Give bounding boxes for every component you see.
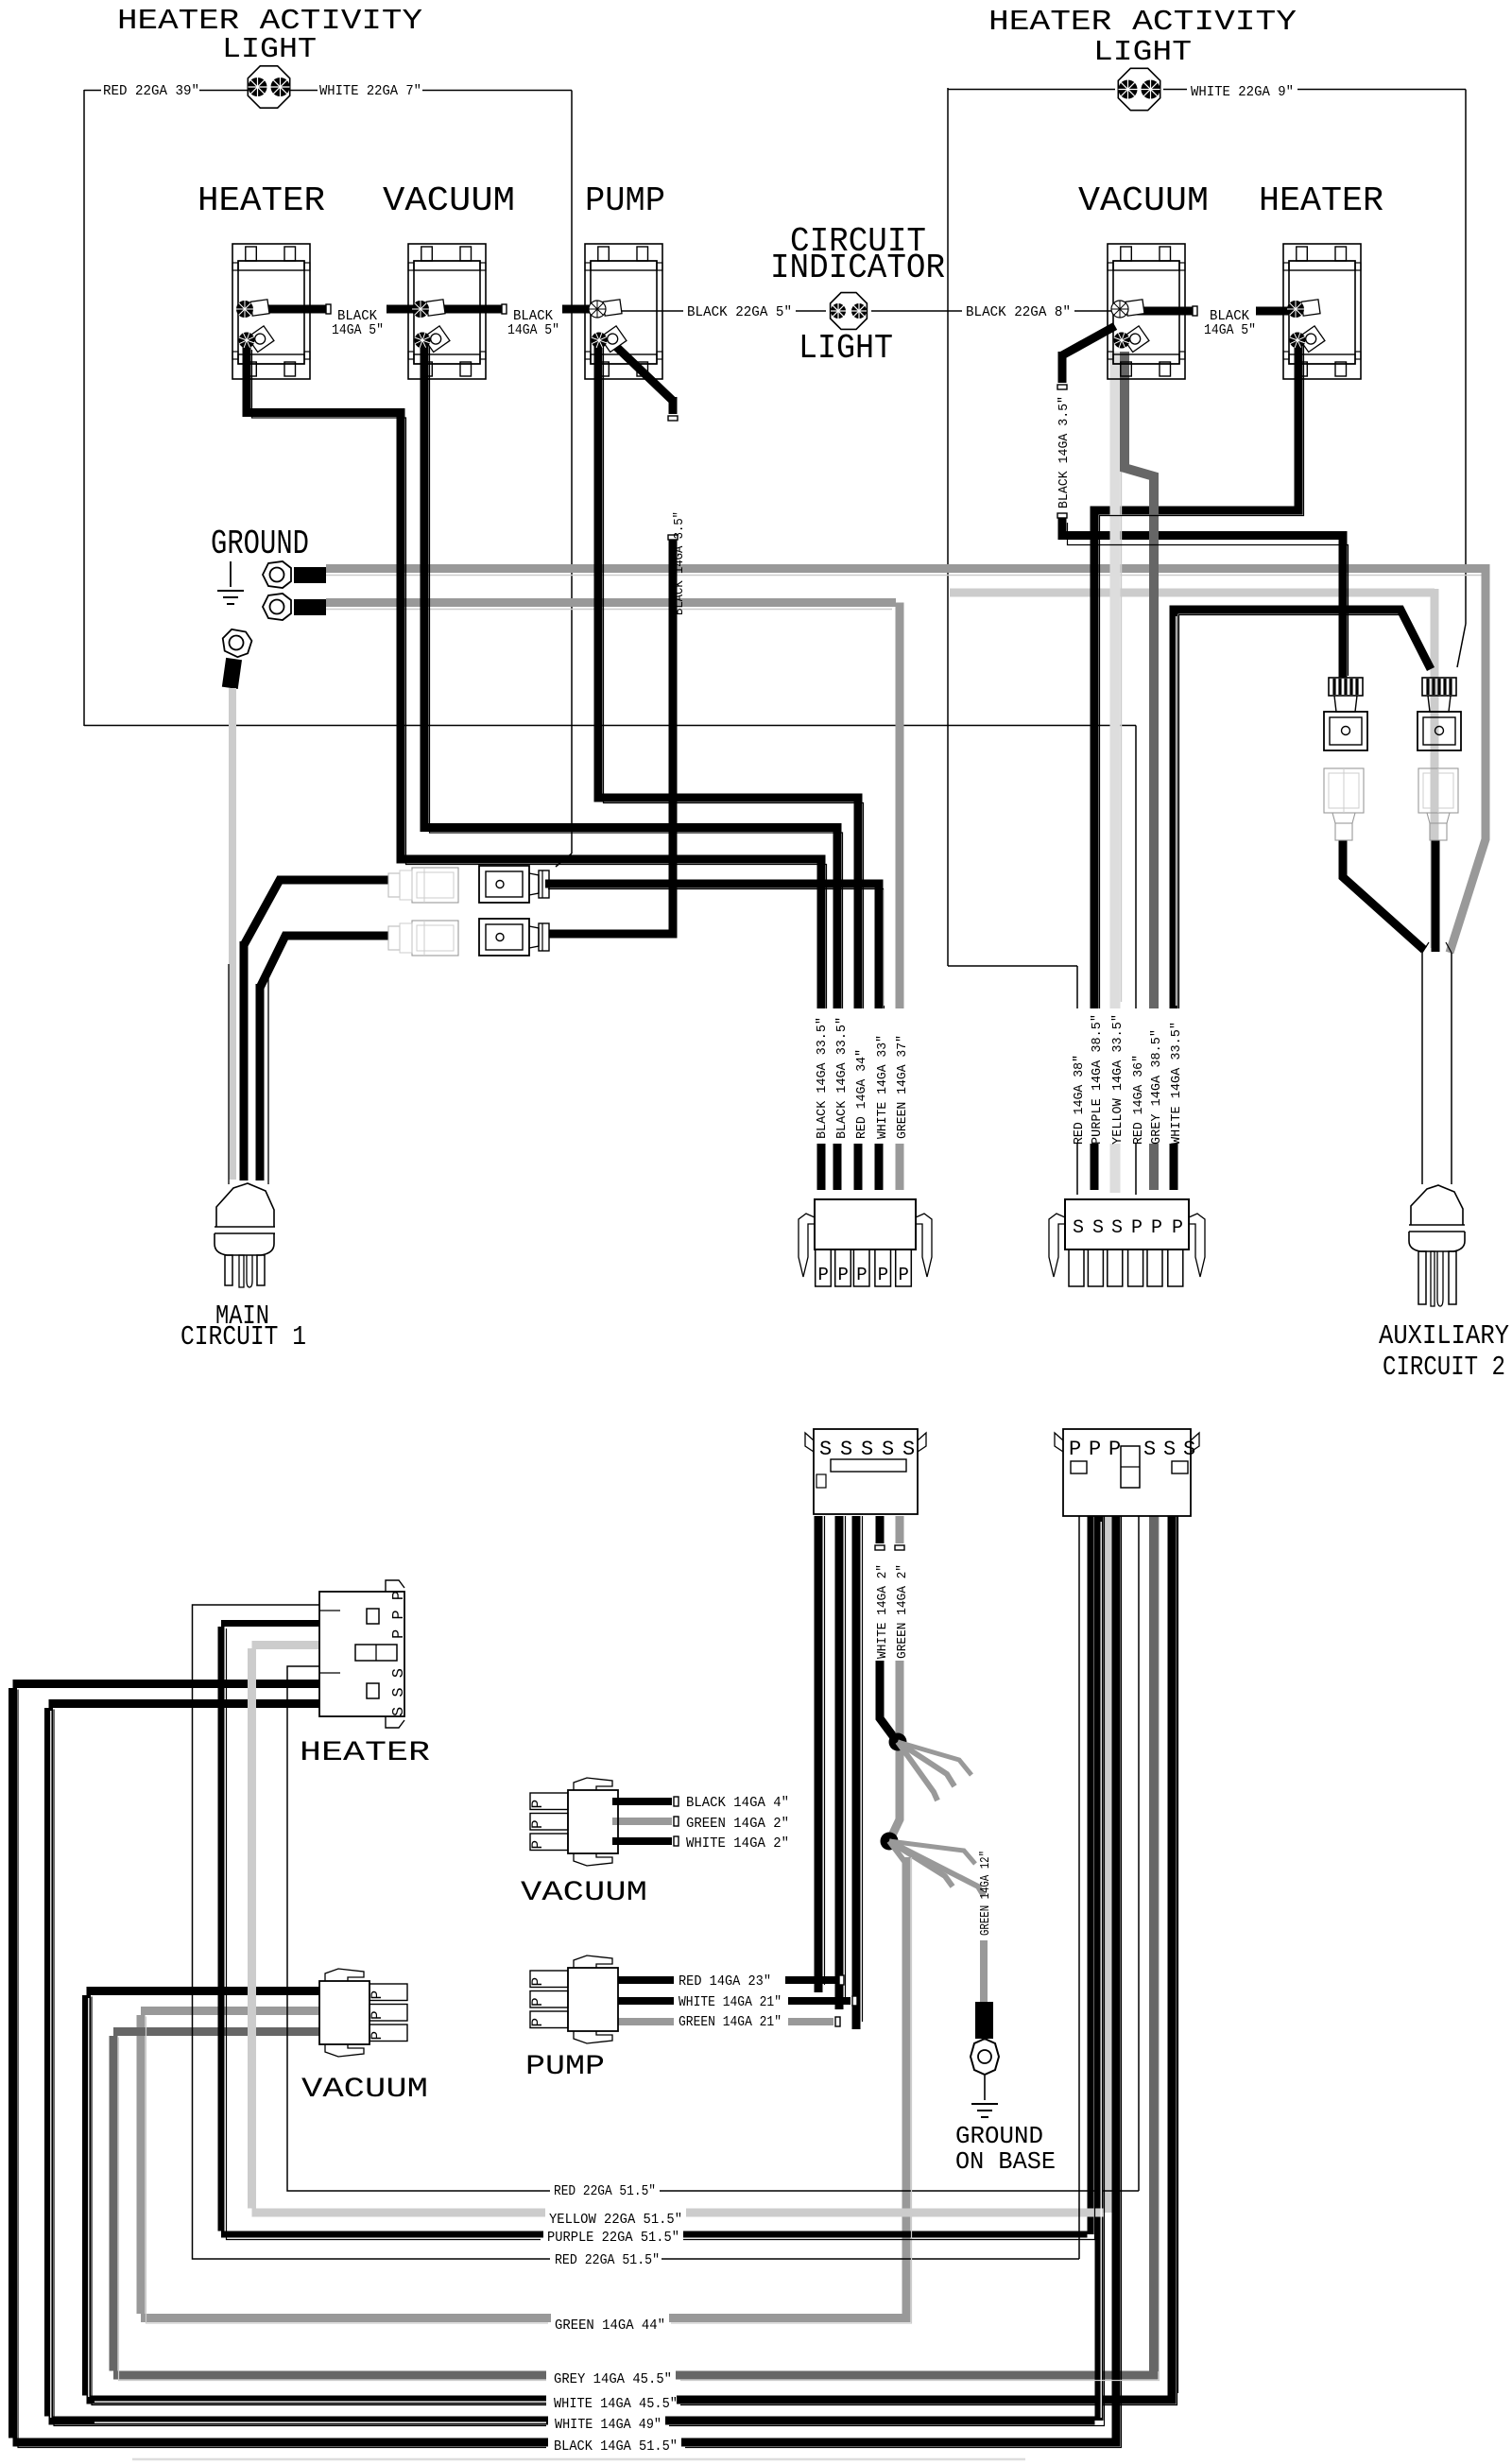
svg-text:14GA 5": 14GA 5" bbox=[507, 322, 559, 338]
svg-text:BLACK 14GA 3.5": BLACK 14GA 3.5" bbox=[1057, 396, 1072, 508]
svg-text:WHITE 14GA 21": WHITE 14GA 21" bbox=[679, 1994, 782, 2010]
svg-text:P: P bbox=[529, 1977, 546, 1987]
svg-text:BLACK 14GA 33.5": BLACK 14GA 33.5" bbox=[815, 1017, 830, 1139]
svg-text:P: P bbox=[1108, 1438, 1121, 1461]
svg-text:P: P bbox=[856, 1265, 867, 1285]
svg-text:VACUUM: VACUUM bbox=[383, 181, 515, 220]
svg-text:WHITE 14GA 49": WHITE 14GA 49" bbox=[555, 2417, 661, 2433]
svg-text:P: P bbox=[1131, 1217, 1143, 1239]
svg-text:PURPLE 22GA 51.5": PURPLE 22GA 51.5" bbox=[547, 2230, 679, 2246]
svg-text:P: P bbox=[529, 1840, 546, 1850]
svg-text:P: P bbox=[529, 1819, 546, 1829]
svg-text:P: P bbox=[369, 1990, 386, 2000]
svg-text:P: P bbox=[529, 1800, 546, 1809]
svg-text:WHITE 14GA 2": WHITE 14GA 2" bbox=[686, 1835, 789, 1852]
svg-text:GROUND: GROUND bbox=[955, 2122, 1043, 2150]
svg-text:HEATER ACTIVITY: HEATER ACTIVITY bbox=[988, 6, 1297, 39]
svg-text:BLACK 22GA 8": BLACK 22GA 8" bbox=[966, 304, 1071, 320]
svg-text:S: S bbox=[1143, 1438, 1156, 1461]
svg-text:P: P bbox=[1172, 1217, 1183, 1239]
svg-text:14GA 5": 14GA 5" bbox=[1204, 322, 1256, 338]
svg-text:S: S bbox=[861, 1438, 873, 1461]
svg-text:GREEN 14GA 37": GREEN 14GA 37" bbox=[895, 1035, 910, 1139]
svg-text:P: P bbox=[899, 1265, 909, 1285]
svg-text:BLACK 14GA 33.5": BLACK 14GA 33.5" bbox=[834, 1017, 850, 1139]
svg-text:S: S bbox=[1111, 1217, 1123, 1239]
svg-text:HEATER: HEATER bbox=[198, 181, 325, 220]
svg-text:YELLOW 14GA 33.5": YELLOW 14GA 33.5" bbox=[1110, 1014, 1125, 1145]
svg-text:LIGHT: LIGHT bbox=[222, 33, 317, 66]
svg-text:RED 14GA 23": RED 14GA 23" bbox=[679, 1973, 771, 1990]
svg-text:RED 14GA 34": RED 14GA 34" bbox=[854, 1049, 869, 1139]
svg-text:BLACK 14GA 51.5": BLACK 14GA 51.5" bbox=[554, 2438, 678, 2455]
svg-text:S: S bbox=[882, 1438, 894, 1461]
svg-text:BLACK 14GA 4": BLACK 14GA 4" bbox=[686, 1795, 789, 1811]
svg-text:WHITE 14GA 2": WHITE 14GA 2" bbox=[875, 1564, 890, 1659]
svg-text:WHITE 14GA 45.5": WHITE 14GA 45.5" bbox=[554, 2396, 678, 2412]
svg-text:S: S bbox=[902, 1438, 915, 1461]
svg-text:INDICATOR: INDICATOR bbox=[770, 249, 945, 287]
svg-text:RED 22GA 51.5": RED 22GA 51.5" bbox=[554, 2183, 656, 2199]
svg-text:GREEN 14GA 12": GREEN 14GA 12" bbox=[978, 1851, 993, 1936]
svg-text:ON BASE: ON BASE bbox=[955, 2147, 1056, 2176]
svg-text:BLACK 22GA 5": BLACK 22GA 5" bbox=[687, 304, 792, 320]
svg-text:GREEN 14GA 44": GREEN 14GA 44" bbox=[555, 2318, 665, 2334]
svg-text:CIRCUIT 2: CIRCUIT 2 bbox=[1383, 1352, 1505, 1383]
svg-text:P: P bbox=[369, 2031, 386, 2041]
svg-text:GREY 14GA 38.5": GREY 14GA 38.5" bbox=[1149, 1029, 1164, 1145]
svg-text:RED 22GA 39": RED 22GA 39" bbox=[103, 83, 199, 99]
svg-text:P: P bbox=[529, 1997, 546, 2007]
svg-text:HEATER: HEATER bbox=[1259, 181, 1383, 220]
svg-text:GREEN 14GA 21": GREEN 14GA 21" bbox=[679, 2014, 782, 2030]
svg-text:LIGHT: LIGHT bbox=[1093, 36, 1192, 69]
svg-text:P: P bbox=[529, 2018, 546, 2027]
svg-text:S S S: S S S bbox=[390, 1668, 408, 1716]
svg-text:AUXILIARY: AUXILIARY bbox=[1379, 1320, 1509, 1352]
svg-text:P: P bbox=[1069, 1438, 1081, 1461]
svg-text:CIRCUIT 1: CIRCUIT 1 bbox=[180, 1321, 306, 1353]
svg-text:PUMP: PUMP bbox=[585, 181, 665, 220]
svg-text:BLACK 14GA 3.5": BLACK 14GA 3.5" bbox=[672, 511, 687, 615]
svg-text:PURPLE 14GA 38.5": PURPLE 14GA 38.5" bbox=[1090, 1014, 1105, 1145]
svg-text:S: S bbox=[1092, 1217, 1104, 1239]
svg-text:GREEN 14GA 2": GREEN 14GA 2" bbox=[686, 1816, 789, 1832]
svg-text:VACUUM: VACUUM bbox=[1078, 181, 1209, 220]
svg-text:P: P bbox=[369, 2010, 386, 2020]
svg-text:P: P bbox=[1089, 1438, 1101, 1461]
svg-text:RED 22GA 51.5": RED 22GA 51.5" bbox=[555, 2252, 660, 2268]
svg-text:S: S bbox=[1183, 1438, 1195, 1461]
svg-text:S: S bbox=[1073, 1217, 1084, 1239]
svg-text:P P P: P P P bbox=[390, 1591, 408, 1639]
svg-text:WHITE 14GA 33": WHITE 14GA 33" bbox=[875, 1035, 890, 1139]
svg-text:HEATER: HEATER bbox=[300, 1737, 430, 1769]
svg-text:RED 14GA 36": RED 14GA 36" bbox=[1131, 1055, 1146, 1145]
svg-text:P: P bbox=[838, 1265, 849, 1285]
svg-text:S: S bbox=[840, 1438, 852, 1461]
svg-text:WHITE 22GA 7": WHITE 22GA 7" bbox=[319, 83, 421, 99]
svg-text:P: P bbox=[878, 1265, 888, 1285]
svg-text:P: P bbox=[818, 1265, 829, 1285]
svg-text:PUMP: PUMP bbox=[525, 2051, 605, 2083]
svg-text:RED 14GA 38": RED 14GA 38" bbox=[1072, 1055, 1087, 1145]
svg-text:S: S bbox=[1163, 1438, 1176, 1461]
svg-text:WHITE 14GA 33.5": WHITE 14GA 33.5" bbox=[1169, 1022, 1184, 1145]
svg-text:LIGHT: LIGHT bbox=[799, 329, 893, 368]
svg-text:YELLOW 22GA 51.5": YELLOW 22GA 51.5" bbox=[549, 2212, 682, 2228]
svg-text:S: S bbox=[819, 1438, 832, 1461]
svg-text:VACUUM: VACUUM bbox=[521, 1877, 647, 1909]
svg-text:14GA 5": 14GA 5" bbox=[332, 322, 384, 338]
svg-text:GREEN 14GA 2": GREEN 14GA 2" bbox=[895, 1564, 910, 1659]
svg-text:VACUUM: VACUUM bbox=[301, 2074, 428, 2106]
svg-text:WHITE 22GA 9": WHITE 22GA 9" bbox=[1191, 84, 1294, 100]
svg-text:P: P bbox=[1151, 1217, 1162, 1239]
svg-text:GREY 14GA 45.5": GREY 14GA 45.5" bbox=[554, 2371, 672, 2387]
svg-text:GROUND: GROUND bbox=[211, 525, 309, 563]
